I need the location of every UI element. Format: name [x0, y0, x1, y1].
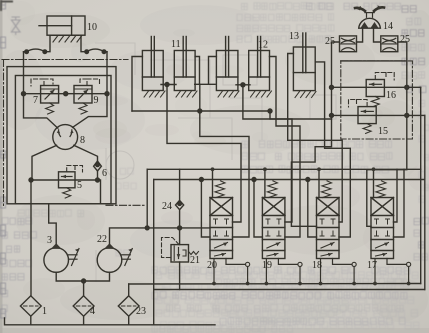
node relief5 left: [29, 178, 33, 182]
throttle 25 right: [381, 36, 398, 52]
wire link down through H1: [200, 84, 249, 237]
wire throttle left supply: [291, 42, 339, 226]
node bus179 v20: [199, 178, 203, 182]
relief valve 5 pilot dashed: [67, 166, 83, 173]
svg-text:16: 16: [386, 90, 396, 101]
wire H1 step to swing-left bus: [270, 111, 332, 119]
dash-dot enclosure around 15 16: [341, 61, 413, 139]
wire cylinder10 left port down: [45, 35, 50, 52]
wire drop to valve18 B: [308, 180, 317, 238]
directional valve 18: [317, 167, 357, 285]
node H1 right: [268, 109, 272, 113]
wire return lower left leg: [153, 290, 155, 325]
relief valve 15 pilot dashed: [349, 100, 368, 108]
node H1 crossing: [198, 109, 202, 113]
cylinder 12a: [216, 37, 238, 91]
svg-text:13: 13: [289, 31, 299, 42]
node 12 pair bottom: [241, 83, 245, 87]
wire right bus outer2: [424, 115, 426, 289]
node bus179 v18: [306, 178, 310, 182]
cylinder 11a: [142, 37, 163, 91]
hose right (dots and sag arc): [85, 49, 107, 53]
relief valve 7 spring: [46, 103, 54, 114]
wire cylinder10 right port down: [81, 35, 87, 52]
relief valve 5 spring: [63, 188, 71, 198]
relief valve 15 spring: [363, 124, 371, 134]
wire right bus down to motor: [73, 94, 108, 128]
svg-text:11: 11: [171, 39, 181, 50]
relief valve 16: [366, 80, 384, 97]
wire pump22 riser: [146, 169, 148, 228]
tank line: [5, 318, 216, 325]
filter 1: [20, 296, 41, 316]
wire suction to filter 4: [83, 281, 85, 296]
node check24 pump line: [178, 226, 182, 230]
relief valve 16 pilot dashed: [375, 73, 394, 81]
wire supply bus y167: [147, 168, 421, 170]
cylinder 12b hatching: [251, 91, 272, 97]
wire check24 riser: [179, 169, 181, 244]
filter 23 top wire to return: [128, 284, 130, 296]
node right bus: [105, 92, 109, 96]
rotary actuator 14 dome: [359, 18, 381, 28]
wire 13 left port: [288, 54, 343, 223]
wire right bus outer: [420, 87, 422, 283]
wire 11 pair bottom link: [161, 84, 176, 86]
wire valve17 right risers: [394, 169, 405, 237]
pump 22 outlet triangle: [104, 243, 115, 249]
node mid valve line: [64, 92, 68, 96]
wire drain to filter 1: [30, 180, 32, 296]
cylinder 10: [39, 16, 85, 35]
machine boundary dash-dot top: [2, 59, 128, 61]
wire valve21 drain: [179, 262, 181, 290]
svg-text:10: 10: [87, 22, 97, 33]
svg-text:9: 9: [94, 95, 99, 106]
relief valve 16 spring: [371, 97, 379, 107]
svg-text:18: 18: [312, 260, 322, 271]
node 15 line left: [330, 113, 334, 117]
pump 22 circle: [97, 248, 122, 273]
machine boundary dash-dot left vertical: [3, 60, 5, 206]
check valve 6: [94, 161, 102, 180]
pump 22 drive shaft: [122, 249, 133, 266]
motor 8 internal arrows: [57, 130, 74, 137]
cylinder 12b: [249, 37, 270, 91]
wire 12 pair bottom down to valve19 A: [243, 85, 292, 222]
relief valve 7 pilot dashed: [31, 79, 53, 86]
svg-text:1: 1: [42, 306, 47, 317]
pump 3 drive shaft: [69, 249, 80, 266]
cylinder 11b: [174, 37, 195, 91]
directional valve 17: [371, 167, 411, 285]
node 16 line left: [330, 85, 334, 89]
wire drop to valve19 B: [254, 180, 262, 238]
svg-text:7: 7: [33, 95, 38, 106]
left block inner rectangle: [15, 76, 111, 204]
directional valve 19: [262, 167, 302, 285]
wire 11 pair bottom down: [167, 85, 241, 223]
svg-text:21: 21: [190, 255, 200, 266]
cylinder 13: [293, 33, 315, 91]
wire 12a left port: [209, 57, 217, 85]
svg-text:12: 12: [258, 40, 268, 51]
wire motor bottom-right: [74, 145, 98, 161]
machine boundary dash-dot bottom right extension: [106, 204, 146, 206]
node suction tee: [82, 279, 86, 283]
wire left bus down to motor: [24, 94, 58, 128]
filter 23: [118, 296, 139, 316]
svg-text:6: 6: [102, 168, 107, 179]
svg-text:8: 8: [80, 135, 85, 146]
wire H1: [132, 110, 270, 112]
svg-text:20: 20: [207, 260, 217, 271]
svg-text:3: 3: [47, 235, 52, 246]
svg-text:24: 24: [162, 201, 172, 212]
svg-text:23: 23: [136, 306, 146, 317]
relief valve 9: [74, 86, 92, 104]
node left bus: [22, 92, 26, 96]
node 16 line right: [405, 85, 409, 89]
pump 3 outlet triangle: [51, 243, 62, 249]
relief valve 7: [41, 86, 59, 104]
check valve 24: [176, 200, 184, 209]
wire 11b right port: [195, 57, 199, 85]
svg-text:25: 25: [325, 36, 335, 47]
filter 4: [73, 296, 94, 316]
wire throttle right supply: [367, 42, 407, 226]
svg-text:5: 5: [77, 180, 82, 191]
wire relief15 line: [332, 114, 425, 116]
actuator 14 shaft: [365, 13, 374, 18]
cylinder 12a hatching: [218, 91, 239, 97]
pump 22 output wire: [110, 228, 211, 244]
wire 13 right port: [315, 62, 350, 237]
relief valve 9 pilot dashed: [80, 79, 100, 86]
node 11 pair bottom: [165, 83, 169, 87]
pump 3 output wire: [49, 204, 57, 244]
wire bus y179.5: [154, 179, 425, 181]
wire valve 7/9 line: [24, 93, 108, 95]
node bus179 v19: [252, 178, 256, 182]
node pump22 riser tee: [145, 226, 149, 230]
filter bottom stubs: [31, 316, 129, 325]
wire drop to valve20 B: [201, 180, 210, 238]
left block outer rectangle: [7, 67, 116, 204]
cylinder 10 mount hatching: [51, 35, 82, 42]
wire relief16 line: [332, 86, 421, 88]
wire motor bottom-left: [32, 145, 57, 180]
valve 21 pilot dashed: [162, 238, 180, 258]
wire dome left port: [357, 28, 363, 42]
wire return bus lower: [154, 289, 425, 291]
actuator 14 internal triangles: [361, 22, 379, 28]
wire 11b-12a link: [195, 83, 216, 85]
svg-text:17: 17: [367, 260, 377, 271]
relief valve 15: [358, 107, 376, 124]
directional valve 20: [210, 167, 250, 285]
node relief5 right: [96, 178, 100, 182]
cylinder 11a hatching: [144, 91, 165, 97]
svg-text:19: 19: [262, 260, 272, 271]
svg-text:4: 4: [90, 306, 95, 317]
svg-text:15: 15: [378, 126, 388, 137]
wire 12b right port: [270, 57, 301, 238]
hydraulic motor 8: [53, 125, 78, 150]
hose left (dots and sag arc): [24, 49, 47, 53]
relief valve 5: [59, 172, 76, 188]
wire right bus from hose to valve line: [106, 52, 108, 94]
svg-text:25: 25: [400, 34, 410, 45]
relief valve 9 spring: [79, 103, 87, 114]
wire bus179 left leg down: [153, 180, 155, 290]
node 15 line right: [405, 113, 409, 117]
wire 11a left port: [132, 57, 142, 112]
wire dome right port: [374, 28, 381, 42]
valve 21: [171, 245, 189, 262]
wire pump suction line: [56, 272, 109, 281]
wire 12 pair bottom link: [236, 84, 250, 86]
svg-text:14: 14: [383, 21, 393, 32]
wire valve5 right down to block bottom: [98, 180, 101, 204]
actuator 14 rotation arrows: [355, 5, 384, 11]
wire relief 5 line: [31, 179, 98, 181]
wire left bus from hose to valve line: [23, 52, 25, 94]
wire return bus upper: [129, 283, 421, 286]
pump 3 circle: [44, 248, 69, 273]
svg-text:22: 22: [97, 234, 107, 245]
cylinder 11b hatching: [176, 91, 197, 97]
enclosure top solid: [341, 60, 405, 62]
cylinder 13 hatching: [295, 92, 316, 98]
valve 21 side spring: [189, 252, 199, 255]
throttle 25 left: [340, 36, 357, 52]
